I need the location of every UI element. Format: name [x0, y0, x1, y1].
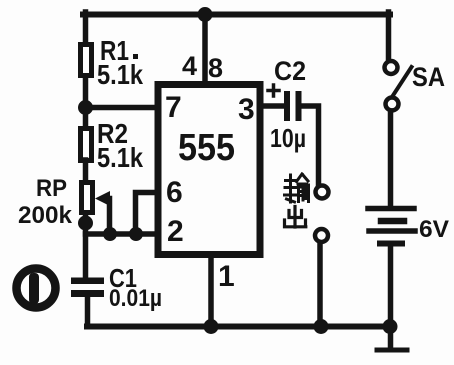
- svg-text:5.1k: 5.1k: [97, 142, 143, 173]
- wire output lower lead: [317, 243, 323, 327]
- wire left rail upper: [83, 12, 89, 44]
- wire R2 to RP: [83, 160, 89, 182]
- svg-text:3: 3: [238, 93, 255, 126]
- op-amp U1 555 box: [158, 85, 260, 255]
- symbol earphone indicator: [17, 269, 56, 308]
- svg-text:5.1k: 5.1k: [97, 59, 143, 90]
- potentiometer RP: [18, 175, 110, 229]
- wire pin 7: [86, 105, 157, 111]
- svg-text:C2: C2: [274, 56, 306, 86]
- svg-text:SA: SA: [412, 62, 445, 92]
- svg-text:6V: 6V: [419, 216, 449, 243]
- wire pin 6: [136, 193, 157, 235]
- wire top rail: [83, 12, 390, 18]
- wire C1 bottom lead: [85, 297, 91, 327]
- wire bottom rail: [87, 324, 390, 330]
- terminal output lower: [315, 229, 328, 242]
- wire battery bottom lead: [388, 246, 394, 348]
- svg-text:7: 7: [165, 91, 182, 124]
- resistor R1: [81, 35, 144, 90]
- wire C2 to output terminal: [301, 106, 319, 184]
- wire R1 to R2: [83, 77, 89, 126]
- wire switch top lead: [386, 12, 392, 59]
- node pin6 junction: [129, 227, 143, 241]
- svg-text:8: 8: [208, 53, 223, 83]
- wire pin 4-8 supply: [202, 13, 208, 82]
- svg-text:6: 6: [166, 176, 183, 209]
- node battery junction: [383, 319, 398, 334]
- capacitor C1: [71, 263, 162, 312]
- wire pin 2 bus: [86, 231, 157, 237]
- label shuchu (output): [285, 174, 309, 227]
- node pin1 junction: [204, 319, 219, 334]
- svg-text:10µ: 10µ: [270, 123, 306, 153]
- node top rail junction: [198, 7, 213, 22]
- wire switch to battery: [388, 111, 394, 206]
- wire pin 3: [261, 103, 285, 109]
- node RP bottom: [78, 216, 93, 231]
- node wiper junction: [103, 227, 117, 241]
- svg-text:RP: RP: [36, 175, 67, 202]
- svg-text:0.01µ: 0.01µ: [109, 285, 162, 312]
- wire left rail lower: [83, 213, 89, 279]
- svg-text:4: 4: [182, 51, 197, 81]
- svg-text:555: 555: [178, 127, 235, 169]
- wire battery end tick: [377, 348, 407, 353]
- svg-text:200k: 200k: [18, 202, 73, 229]
- svg-text:1: 1: [218, 260, 235, 293]
- wire pin 1 lead: [208, 256, 214, 327]
- node output junction: [314, 319, 329, 334]
- switch SA: [385, 61, 446, 111]
- terminal output upper: [316, 186, 329, 199]
- resistor R2: [81, 118, 144, 173]
- node pin7 junction: [78, 100, 93, 115]
- wire RP wiper: [106, 199, 110, 235]
- svg-text:2: 2: [167, 215, 184, 248]
- capacitor C2: [268, 56, 306, 153]
- battery 6V: [368, 209, 449, 244]
